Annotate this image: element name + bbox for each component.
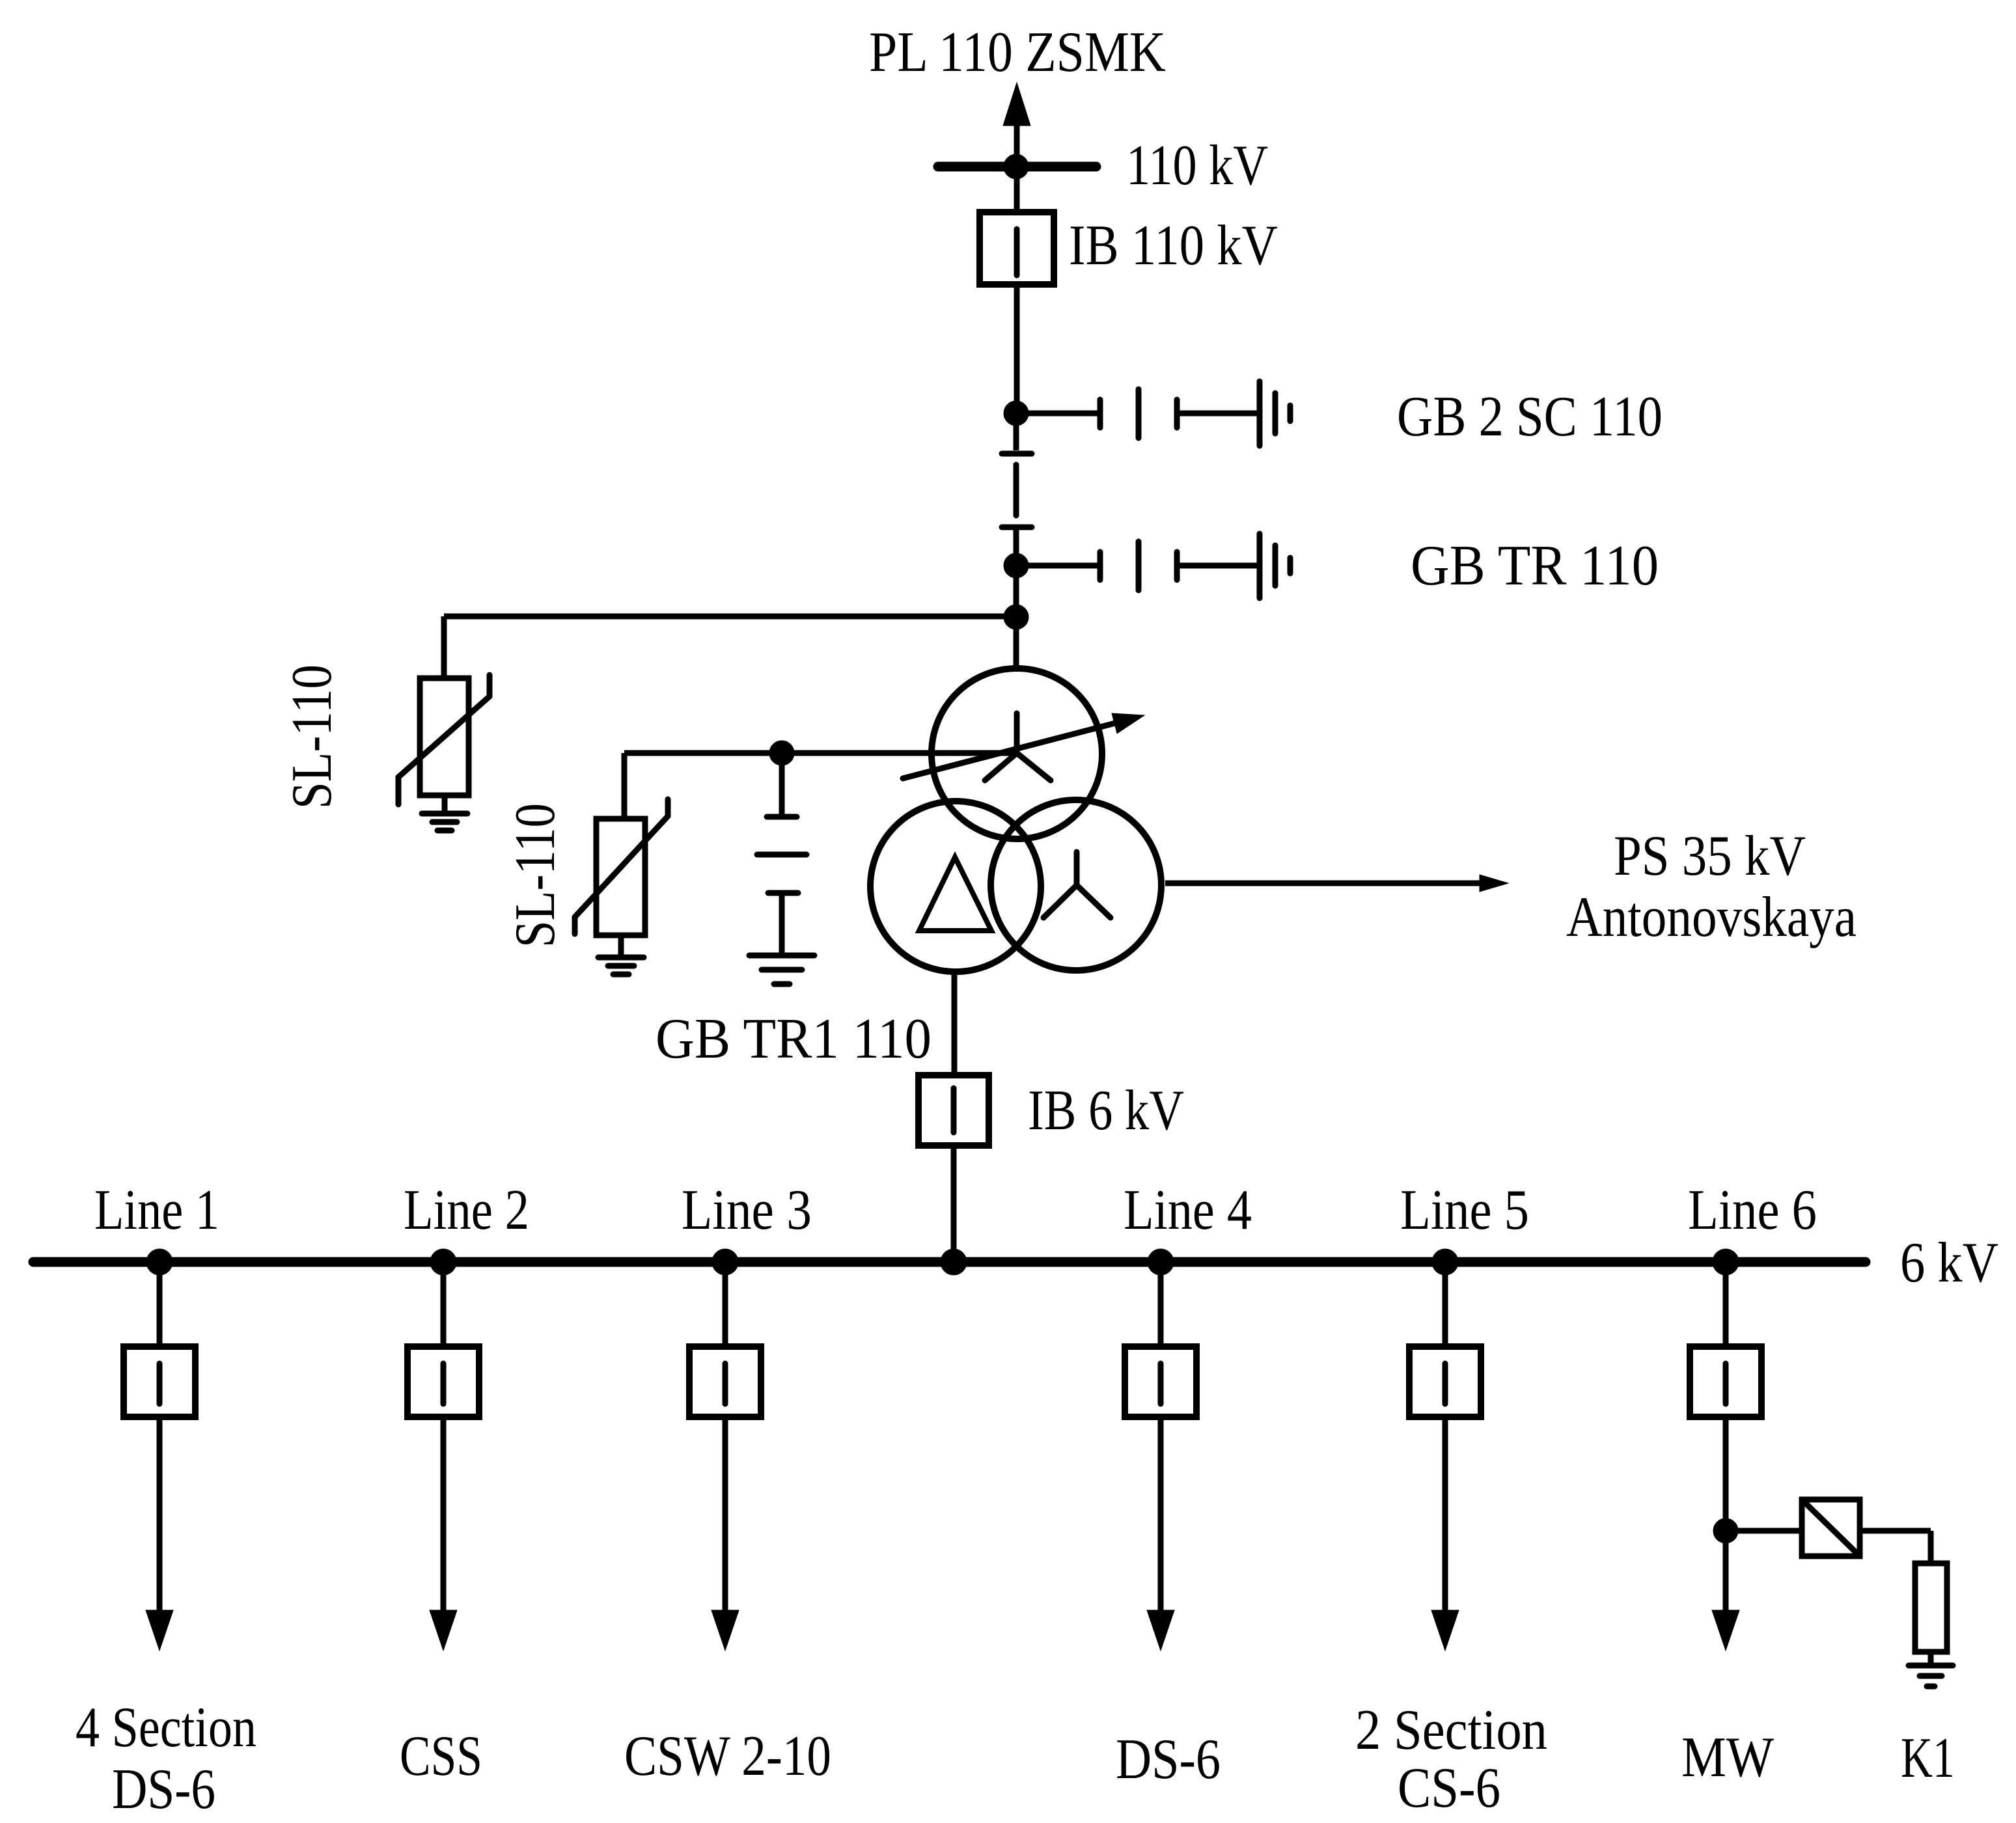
- breaker Line 5 contact dash: [1443, 1364, 1448, 1404]
- transformer HV star symbol: [985, 713, 1051, 780]
- wire transformer primary stub: [1014, 617, 1019, 667]
- earthing switch GB TR1 110 upper tick: [767, 814, 797, 820]
- wire arrester no.1 to ground: [442, 798, 448, 814]
- node at GB TR 110 branch: [1004, 553, 1029, 578]
- breaker IB 110 kV contact dash: [1014, 229, 1020, 275]
- transformer MV star symbol: [1043, 852, 1111, 918]
- wire down to K1 resistor: [1928, 1531, 1934, 1561]
- svg-text:K1: K1: [1901, 1727, 1955, 1790]
- feeder breaker Line 4: [1125, 1347, 1196, 1417]
- transformer T1 MV winding (35 kV, star): [991, 800, 1161, 970]
- surge arrester SL-110 no.1 body: [420, 678, 469, 795]
- wire GB TR1 110 to ground: [779, 893, 785, 955]
- svg-text:DS-6: DS-6: [1116, 1728, 1221, 1791]
- wire Line 3 bus to breaker: [723, 1262, 728, 1343]
- svg-text:Line 2: Line 2: [404, 1179, 529, 1242]
- svg-text:Antonovskaya: Antonovskaya: [1566, 886, 1857, 949]
- node at GB TR1 110 branch: [769, 741, 794, 765]
- svg-text:CSW 2-10: CSW 2-10: [624, 1725, 831, 1788]
- arrester no.2 diagonal bottom hook: [572, 917, 578, 934]
- wire Line 5 bus to breaker: [1443, 1262, 1448, 1343]
- ground of arrester SL-110 no.1: [422, 814, 467, 830]
- arrowhead to PL 110 ZSMK: [1003, 83, 1030, 126]
- svg-text:110 kV: 110 kV: [1126, 134, 1268, 197]
- svg-text:2 Section: 2 Section: [1355, 1699, 1547, 1762]
- svg-text:DS-6: DS-6: [112, 1758, 215, 1821]
- svg-text:MW: MW: [1681, 1726, 1774, 1789]
- disconnector blade: [1014, 465, 1019, 515]
- svg-text:CSS: CSS: [400, 1725, 482, 1788]
- wire node to earthing switch GB TR1 110: [779, 753, 785, 817]
- wire Line 6 bus to breaker: [1723, 1262, 1729, 1343]
- ground of arrester SL-110 no.2: [598, 957, 644, 974]
- arrester no.1 diagonal top hook: [487, 675, 493, 696]
- svg-text:Line 6: Line 6: [1688, 1179, 1817, 1242]
- wire down to arrester SL-110 no.1: [441, 616, 447, 676]
- wire GB TR node to SL branch node: [1014, 566, 1019, 617]
- load arrow Line 3: [711, 1610, 739, 1651]
- svg-text:IB 6 kV: IB 6 kV: [1028, 1079, 1184, 1142]
- surge arrester SL-110 no.2 body: [596, 819, 645, 935]
- transformer T1 HV winding (110 kV): [932, 668, 1102, 839]
- arrowhead to PS 35 kV: [1480, 875, 1508, 892]
- load arrow Line 2: [430, 1610, 457, 1651]
- svg-text:IB 110 kV: IB 110 kV: [1069, 214, 1278, 277]
- svg-text:Line 5: Line 5: [1400, 1179, 1529, 1242]
- svg-text:PS 35 kV: PS 35 kV: [1614, 825, 1806, 888]
- wire Line 1 bus to breaker: [157, 1262, 163, 1343]
- node Line 5: [1432, 1249, 1458, 1275]
- feeder breaker Line 6: [1690, 1347, 1761, 1417]
- node Line 3: [712, 1249, 738, 1275]
- wire Line 6 node to load arrow: [1723, 1531, 1729, 1614]
- load arrow Line 5: [1431, 1610, 1459, 1651]
- wire up-arrow shaft to PL 110 ZSMK: [1014, 120, 1020, 167]
- node Line 6: [1713, 1249, 1739, 1275]
- transformer LV delta symbol: [919, 857, 991, 931]
- wire Line 1 to load arrow: [157, 1420, 163, 1614]
- resistor K1: [1915, 1563, 1947, 1652]
- wire IB 110 kV to GB 2 SC node: [1014, 288, 1020, 413]
- fuse box diagonal: [1804, 1501, 1858, 1554]
- earthing switch GB TR1 110 lower tick: [768, 890, 798, 896]
- wire MV winding to PS 35 kV: [1165, 881, 1482, 886]
- wire IB 6 kV to 6 kV busbar: [951, 1149, 957, 1262]
- earthing switch GB TR1 110 open blade: [757, 852, 807, 858]
- breaker Line 6 contact dash: [1723, 1364, 1729, 1404]
- svg-text:Line 4: Line 4: [1124, 1179, 1252, 1242]
- wire branch to transformer star point: [624, 750, 1017, 756]
- feeder breaker Line 1: [124, 1347, 195, 1417]
- node Line 1: [146, 1249, 173, 1275]
- wire K1 resistor to ground: [1928, 1654, 1934, 1665]
- disconnector upper tick: [1002, 451, 1032, 457]
- svg-text:GB 2 SC 110: GB 2 SC 110: [1397, 385, 1663, 448]
- ground of K1: [1909, 1665, 1953, 1686]
- disconnector lower tick: [1002, 525, 1032, 530]
- breaker Line 3 contact dash: [723, 1364, 728, 1404]
- svg-text:SL-110: SL-110: [281, 665, 344, 809]
- wire Line 3 to load arrow: [723, 1420, 728, 1614]
- arrester no.2 diagonal: [575, 816, 668, 917]
- wire disconnector to GB TR node: [1014, 527, 1019, 566]
- svg-text:GB TR 110: GB TR 110: [1411, 534, 1659, 597]
- svg-text:Line 3: Line 3: [682, 1179, 812, 1242]
- node at SL-110 branch: [1004, 605, 1029, 629]
- wire fuse to K1 resistor: [1862, 1528, 1931, 1534]
- arrester no.1 diagonal bottom hook: [396, 777, 402, 804]
- load arrow Line 4: [1147, 1610, 1174, 1651]
- svg-text:6 kV: 6 kV: [1900, 1231, 1998, 1295]
- wire node to disconnector: [1014, 413, 1019, 450]
- wire Line 2 bus to breaker: [441, 1262, 447, 1343]
- wire Line 2 to load arrow: [441, 1420, 447, 1614]
- node Line 4: [1148, 1249, 1174, 1275]
- wire LV winding to IB 6 kV: [952, 975, 958, 1072]
- load arrow MW: [1712, 1610, 1739, 1651]
- svg-text:Line 1: Line 1: [94, 1179, 219, 1242]
- earthing switch GB TR 110: [1016, 534, 1290, 598]
- feeder breaker Line 3: [689, 1347, 761, 1417]
- node at GB 2 SC 110 branch: [1004, 401, 1029, 426]
- svg-text:CS-6: CS-6: [1398, 1757, 1500, 1820]
- wire Line 6 breaker to node: [1723, 1420, 1729, 1531]
- node Line 6 branch to K1: [1713, 1518, 1738, 1543]
- breaker Line 4 contact dash: [1158, 1364, 1164, 1404]
- wire node to fuse K1: [1726, 1528, 1799, 1534]
- node on 110 kV busbar: [1004, 154, 1029, 179]
- tap changer arrowhead: [1112, 713, 1144, 733]
- feeder breaker Line 5: [1409, 1347, 1481, 1417]
- wire down to arrester SL-110 no.2: [622, 753, 628, 816]
- feeder breaker Line 2: [407, 1347, 479, 1417]
- arrester no.2 diagonal top hook: [665, 799, 671, 816]
- breaker Line 1 contact dash: [157, 1364, 163, 1404]
- node feeder supply: [941, 1249, 967, 1275]
- svg-text:GB TR1 110: GB TR1 110: [656, 1007, 932, 1071]
- svg-text:PL 110 ZSMK: PL 110 ZSMK: [869, 21, 1166, 84]
- breaker IB 6 kV contact dash: [951, 1088, 957, 1132]
- wire Line 5 to load arrow: [1443, 1420, 1448, 1614]
- wire to surge arrester SL-110 no.1: [444, 614, 1016, 620]
- wire Line 4 to load arrow: [1158, 1420, 1164, 1614]
- node Line 2: [430, 1249, 456, 1275]
- busbar 6 kV: [33, 1257, 1866, 1267]
- ground of GB TR1 110: [749, 955, 814, 984]
- wire arrester no.2 to ground: [618, 938, 624, 957]
- circuit breaker IB 6 kV: [918, 1075, 989, 1145]
- transformer T1 LV winding (6 kV, delta): [870, 801, 1041, 972]
- wire busbar to IB 110 kV: [1014, 167, 1020, 209]
- svg-text:SL-110: SL-110: [504, 803, 567, 948]
- circuit breaker IB 110 kV: [980, 212, 1054, 284]
- busbar 110 kV: [938, 162, 1096, 172]
- wire Line 4 bus to breaker: [1158, 1262, 1164, 1343]
- tap changer arrow shaft: [903, 718, 1135, 778]
- svg-text:4 Section: 4 Section: [76, 1696, 256, 1759]
- load arrow Line 1: [146, 1610, 173, 1651]
- breaker Line 2 contact dash: [441, 1364, 447, 1404]
- earthing switch GB 2 SC 110: [1016, 381, 1290, 446]
- fuse-disconnect box to K1: [1802, 1500, 1860, 1556]
- arrester no.1 diagonal: [398, 696, 490, 777]
